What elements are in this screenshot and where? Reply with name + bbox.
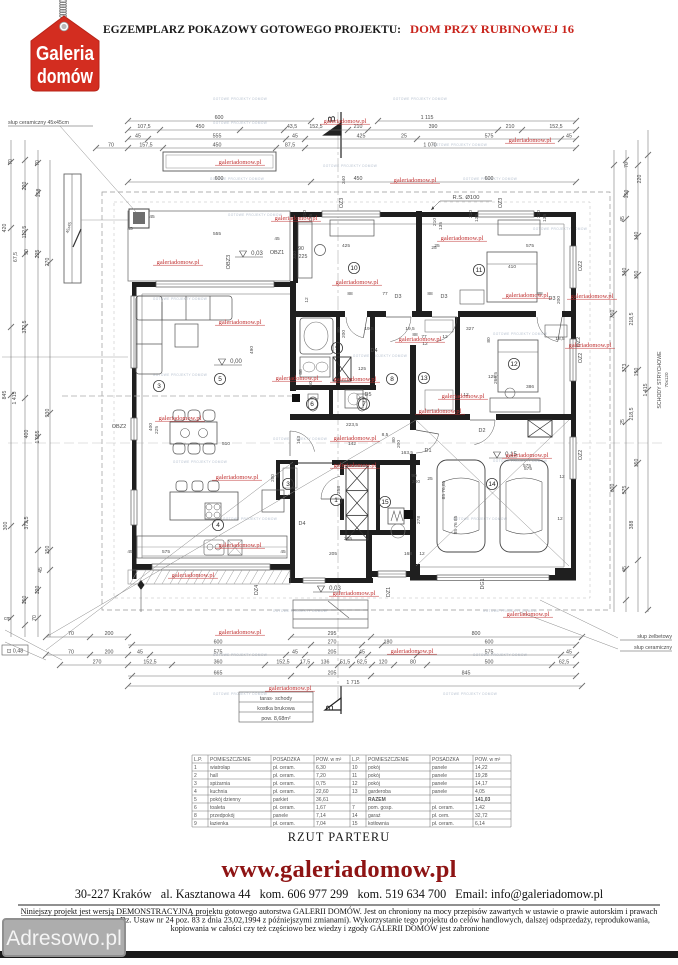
wall room12-garderoba [455, 317, 460, 414]
svg-text:pokój: pokój [368, 765, 380, 771]
svg-text:domów: domów [37, 66, 94, 89]
svg-text:13: 13 [420, 375, 428, 382]
svg-text:3: 3 [194, 781, 197, 787]
svg-text:845: 845 [2, 391, 8, 400]
svg-text:panele: panele [432, 773, 447, 779]
svg-text:600: 600 [214, 640, 223, 646]
svg-text:152,5: 152,5 [276, 660, 289, 666]
svg-text:spiżarnia: spiżarnia [210, 781, 230, 787]
svg-text:D5: D5 [365, 392, 372, 398]
svg-text:90: 90 [24, 249, 30, 255]
svg-text:372,5: 372,5 [24, 516, 30, 529]
door cut corridor room12 [536, 311, 562, 317]
svg-text:6,14: 6,14 [475, 821, 485, 827]
wall vestibule right [366, 533, 372, 583]
wall bath-toilet [336, 317, 340, 385]
svg-text:GOTOWE PROJEKTY DOMOW: GOTOWE PROJEKTY DOMOW [273, 609, 327, 613]
svg-text:555: 555 [213, 231, 221, 237]
door wiatrolap [321, 498, 344, 500]
svg-text:GOTOWE PROJEKTY DOMOW: GOTOWE PROJEKTY DOMOW [173, 460, 227, 464]
svg-text:D3: D3 [395, 294, 402, 300]
door D2 garage [470, 419, 495, 421]
sink [204, 540, 224, 555]
door D3 room12 [558, 317, 562, 342]
svg-text:575: 575 [485, 134, 494, 140]
svg-text:360: 360 [214, 660, 223, 666]
svg-text:270: 270 [45, 258, 51, 267]
svg-text:70: 70 [35, 160, 41, 166]
svg-text:665: 665 [214, 671, 223, 677]
svg-text:12: 12 [510, 361, 518, 368]
level mark 0,00 [219, 359, 226, 365]
svg-text:14,22: 14,22 [475, 765, 488, 771]
window OZ3 room10 [322, 211, 380, 217]
svg-text:223,5: 223,5 [346, 422, 358, 428]
horizontal reference line [8, 442, 662, 444]
svg-text:135: 135 [542, 214, 548, 222]
svg-text:D3: D3 [549, 296, 556, 302]
svg-text:80: 80 [410, 660, 416, 666]
door cut corridor room10 [386, 311, 412, 317]
construction diagonal lines [46, 420, 416, 637]
logo hang hole [60, 22, 69, 31]
svg-text:210: 210 [536, 210, 542, 218]
svg-text:12: 12 [557, 516, 563, 522]
door cut garage-kotlownia [410, 430, 416, 454]
svg-text:12: 12 [419, 551, 425, 557]
room11 bed [487, 252, 537, 302]
svg-text:19,5: 19,5 [364, 326, 374, 332]
svg-text:pom. gosp.: pom. gosp. [368, 805, 393, 811]
door living [289, 431, 291, 456]
svg-text:OZ2: OZ2 [578, 353, 584, 363]
svg-text:600: 600 [485, 176, 494, 182]
svg-text:kopiowania w całości czy też c: kopiowania w całości czy też częściowo b… [171, 923, 490, 933]
svg-text:25: 25 [431, 245, 437, 251]
svg-text:pokój: pokój [368, 781, 380, 787]
svg-text:18,5: 18,5 [555, 336, 565, 342]
svg-text:cm: cm [4, 616, 11, 622]
svg-text:6: 6 [310, 401, 314, 408]
svg-text:85 76 85: 85 76 85 [453, 515, 459, 534]
separator line [18, 904, 660, 906]
svg-text:kotłownia: kotłownia [368, 821, 389, 827]
wall living-bath [290, 281, 296, 391]
washbasin counter [300, 357, 330, 377]
svg-text:19,5: 19,5 [405, 326, 415, 332]
svg-text:120: 120 [379, 660, 388, 666]
svg-text:wiatrołap: wiatrołap [210, 765, 230, 771]
room number 5 [214, 373, 225, 384]
left leader line [2, 356, 128, 358]
svg-text:70: 70 [68, 650, 74, 656]
svg-text:386: 386 [526, 384, 534, 390]
wall step entrance-garage [415, 564, 420, 580]
svg-text:340: 340 [622, 268, 628, 277]
svg-text:Adresowo.pl: Adresowo.pl [6, 927, 122, 950]
svg-text:800: 800 [472, 631, 481, 637]
svg-text:200: 200 [105, 631, 114, 637]
room number 3 [282, 478, 293, 489]
wall garage left [410, 420, 416, 575]
coffee table [175, 324, 198, 347]
svg-text:Galeria: Galeria [36, 42, 94, 65]
svg-text:150: 150 [624, 190, 630, 199]
top dimension row 1 [128, 120, 311, 122]
door cut bath [345, 311, 367, 317]
svg-text:OZ3: OZ3 [498, 198, 504, 208]
wall bath-przedpokoj [370, 311, 375, 390]
svg-text:575: 575 [622, 486, 628, 495]
svg-text:6,30: 6,30 [316, 765, 326, 771]
svg-text:88: 88 [347, 291, 353, 297]
wall spizarnia bottom [276, 495, 295, 499]
svg-text:pł. cem.: pł. cem. [432, 813, 450, 819]
svg-text:2: 2 [194, 773, 197, 779]
svg-text:845: 845 [462, 671, 471, 677]
window left living [131, 296, 137, 368]
svg-text:258: 258 [336, 486, 342, 494]
svg-text:POMIESZCZENIE: POMIESZCZENIE [210, 757, 252, 763]
top dimension row 3 [128, 138, 576, 140]
svg-text:7,14: 7,14 [316, 813, 326, 819]
svg-text:7: 7 [352, 805, 355, 811]
svg-text:225: 225 [35, 250, 41, 259]
svg-text:GOTOWE PROJEKTY DOMOW: GOTOWE PROJEKTY DOMOW [213, 97, 267, 101]
svg-text:158: 158 [36, 189, 42, 198]
svg-text:425: 425 [357, 134, 366, 140]
svg-text:490: 490 [249, 346, 255, 354]
door D4 bath [363, 317, 367, 338]
svg-text:www.galeriadomow.pl: www.galeriadomow.pl [221, 856, 456, 883]
svg-text:pł. ceram.: pł. ceram. [273, 765, 295, 771]
svg-text:135: 135 [438, 222, 444, 230]
garage door DG1 [437, 575, 549, 581]
svg-text:45: 45 [359, 650, 365, 656]
svg-text:1 070: 1 070 [423, 143, 436, 149]
fridge [262, 490, 284, 512]
svg-text:168: 168 [404, 551, 412, 557]
wall garage bottom [410, 575, 576, 581]
svg-text:GOTOWE PROJEKTY DOMOW: GOTOWE PROJEKTY DOMOW [393, 97, 447, 101]
svg-text:88: 88 [427, 291, 433, 297]
svg-text:8,5: 8,5 [382, 432, 389, 438]
svg-text:575: 575 [162, 549, 170, 555]
svg-text:panele: panele [432, 789, 447, 795]
svg-text:22,60: 22,60 [316, 789, 329, 795]
svg-text:600: 600 [215, 176, 224, 182]
svg-text:575: 575 [523, 463, 531, 469]
svg-text:DZ1: DZ1 [386, 587, 392, 597]
dining chairs [173, 410, 215, 454]
svg-text:45: 45 [127, 226, 133, 232]
svg-text:107,5: 107,5 [137, 124, 150, 130]
svg-text:1: 1 [334, 497, 338, 504]
svg-text:150: 150 [634, 459, 640, 468]
svg-text:5: 5 [218, 376, 222, 383]
level mark 0,03 [318, 586, 325, 592]
svg-text:45: 45 [292, 134, 298, 140]
svg-text:toaleta: toaleta [210, 805, 225, 811]
svg-text:70x120: 70x120 [664, 372, 669, 388]
svg-text:pł. ceram.: pł. ceram. [273, 789, 295, 795]
sofa L-shaped [136, 296, 232, 374]
svg-text:80: 80 [275, 472, 280, 478]
svg-text:120: 120 [35, 586, 41, 595]
svg-text:1 415: 1 415 [12, 391, 18, 404]
window bottom kitchen [152, 564, 270, 570]
bathtub [300, 318, 333, 354]
inner wall faces [142, 224, 564, 567]
svg-text:6: 6 [194, 805, 197, 811]
wc toaleta [308, 397, 318, 411]
svg-text:panele: panele [432, 765, 447, 771]
wall top exterior [290, 212, 576, 217]
svg-text:POMIESZCZENIE: POMIESZCZENIE [368, 757, 410, 763]
svg-text:266,5: 266,5 [493, 372, 499, 384]
svg-text:200: 200 [396, 440, 402, 448]
window OZ3 room11 [478, 211, 534, 217]
svg-text:GOTOWE PROJEKTY DOMOW: GOTOWE PROJEKTY DOMOW [453, 517, 507, 521]
svg-text:575: 575 [526, 243, 534, 249]
svg-text:62,5: 62,5 [357, 660, 367, 666]
svg-text:390: 390 [429, 124, 438, 130]
svg-text:150: 150 [45, 546, 51, 555]
svg-text:POW. w m²: POW. w m² [475, 757, 501, 763]
svg-text:DZ4: DZ4 [254, 585, 260, 595]
svg-text:pł. ceram.: pł. ceram. [432, 821, 454, 827]
taras schody table [239, 692, 313, 722]
svg-text:słup ceramiczny 45x45cm: słup ceramiczny 45x45cm [8, 120, 70, 126]
svg-text:7,20: 7,20 [316, 773, 326, 779]
svg-text:225: 225 [154, 426, 160, 434]
svg-text:372,5: 372,5 [22, 320, 28, 333]
svg-text:327: 327 [466, 326, 474, 332]
svg-text:10: 10 [352, 765, 358, 771]
svg-text:14: 14 [488, 481, 496, 488]
svg-text:pokój: pokój [368, 773, 380, 779]
canopy rectangle above plan [163, 152, 276, 171]
svg-text:210: 210 [432, 218, 438, 226]
svg-text:388: 388 [629, 521, 635, 530]
svg-text:pł. ceram.: pł. ceram. [432, 805, 454, 811]
svg-text:300: 300 [3, 522, 9, 531]
wall kotlownia right [376, 460, 380, 533]
svg-text:12: 12 [304, 297, 310, 303]
washer pom gosp [345, 390, 363, 408]
door cut wiatrolap-hall [340, 475, 344, 499]
svg-text:180: 180 [384, 640, 393, 646]
svg-text:425: 425 [342, 243, 350, 249]
svg-text:400: 400 [148, 423, 154, 431]
svg-text:17,5: 17,5 [300, 660, 310, 666]
svg-text:GOTOWE PROJEKTY DOMOW: GOTOWE PROJEKTY DOMOW [493, 332, 547, 336]
svg-text:RAZEM: RAZEM [368, 797, 386, 803]
svg-text:1 415: 1 415 [643, 383, 649, 396]
level mark 0,03 [240, 251, 247, 257]
svg-text:70: 70 [624, 162, 630, 168]
room number 13 [418, 372, 429, 383]
svg-text:garaż: garaż [368, 813, 381, 819]
svg-text:32,72: 32,72 [475, 813, 488, 819]
wall rooms 10-11 [416, 211, 422, 317]
svg-text:750: 750 [610, 310, 616, 319]
svg-text:70: 70 [68, 631, 74, 637]
svg-text:1 715: 1 715 [346, 680, 359, 686]
svg-text:OBZ2: OBZ2 [112, 424, 127, 430]
svg-text:205: 205 [344, 536, 352, 542]
door D3 room11 [432, 316, 457, 318]
junction blocks [292, 394, 300, 402]
svg-text:45: 45 [149, 214, 155, 220]
svg-text:9: 9 [335, 345, 339, 352]
svg-text:450: 450 [196, 124, 205, 130]
left dimension columns [10, 140, 12, 637]
svg-text:200: 200 [556, 296, 562, 304]
svg-text:GOTOWE PROJEKTY DOMOW: GOTOWE PROJEKTY DOMOW [153, 297, 207, 301]
niche washbasin [315, 245, 326, 256]
svg-text:pokój dzienny: pokój dzienny [210, 797, 241, 803]
svg-text:OZ2: OZ2 [578, 450, 584, 460]
svg-text:45: 45 [137, 650, 143, 656]
svg-text:7,04: 7,04 [316, 821, 326, 827]
svg-text:GOTOWE PROJEKTY DOMOW: GOTOWE PROJEKTY DOMOW [533, 227, 587, 231]
room table [192, 755, 511, 827]
room12 desk [490, 398, 540, 412]
0,48 box [2, 645, 28, 655]
svg-text:3: 3 [286, 481, 290, 488]
wall przedpokoj-garderoba [410, 345, 416, 420]
room number 1 [330, 494, 341, 505]
svg-text:GOTOWE PROJEKTY DOMOW: GOTOWE PROJEKTY DOMOW [213, 121, 267, 125]
door cut hall-garage D2 [470, 414, 496, 420]
bottom black bar [0, 951, 678, 958]
section mark B top [324, 112, 341, 158]
svg-text:D4: D4 [299, 521, 306, 527]
svg-text:25: 25 [620, 419, 626, 425]
window OZ2 room11 [570, 246, 576, 288]
svg-text:30-227 Kraków al. Kasztanowa: 30-227 Kraków al. Kasztanowa 44 kom. 606… [75, 887, 604, 901]
room10 wardrobe [298, 222, 312, 278]
svg-text:L.P.: L.P. [194, 757, 202, 763]
svg-text:12: 12 [442, 334, 448, 340]
svg-text:11: 11 [352, 773, 357, 779]
svg-text:DOM PRZY RUBINOWEJ 16: DOM PRZY RUBINOWEJ 16 [410, 22, 574, 36]
section line B [337, 112, 339, 700]
svg-text:295: 295 [328, 631, 337, 637]
room number 11 [473, 264, 484, 275]
svg-text:panele: panele [273, 813, 288, 819]
svg-text:pł. ceram.: pł. ceram. [273, 821, 295, 827]
svg-text:45: 45 [38, 567, 44, 573]
svg-text:77: 77 [382, 291, 388, 297]
room number 14 [486, 478, 497, 489]
garderoba shelves [425, 320, 453, 332]
svg-text:7: 7 [362, 401, 366, 408]
spizarnia shelves [283, 468, 297, 488]
svg-text:150: 150 [634, 368, 640, 377]
svg-text:10: 10 [350, 265, 358, 272]
wall vestibule bottom [289, 578, 373, 583]
svg-text:70: 70 [108, 143, 114, 149]
car 2 in garage [500, 460, 548, 552]
svg-text:OBZ3: OBZ3 [226, 255, 232, 270]
survey marker [138, 580, 145, 590]
top dimension row 4 [96, 147, 576, 149]
room number 9 [331, 342, 342, 353]
svg-text:270: 270 [93, 660, 102, 666]
svg-text:OZ3: OZ3 [339, 198, 345, 208]
svg-text:157,5: 157,5 [139, 143, 152, 149]
svg-text:8: 8 [194, 813, 197, 819]
kitchen counter bottom [137, 536, 287, 558]
dining table [170, 422, 217, 444]
svg-text:220: 220 [637, 175, 643, 184]
door DZ1 kotlownia [378, 571, 406, 577]
svg-text:taras· schody: taras· schody [260, 696, 293, 702]
garage diagonals [416, 420, 569, 566]
svg-text:14,17: 14,17 [475, 781, 488, 787]
svg-text:87,5: 87,5 [285, 143, 295, 149]
svg-text:D3: D3 [441, 294, 448, 300]
svg-text:13: 13 [352, 789, 358, 795]
svg-text:150: 150 [22, 596, 28, 605]
svg-text:340: 340 [341, 176, 347, 184]
stove 4 burners [205, 503, 221, 519]
svg-text:11: 11 [476, 267, 483, 274]
svg-text:340: 340 [292, 251, 298, 259]
svg-text:112,5: 112,5 [22, 226, 28, 239]
svg-text:152,5: 152,5 [549, 124, 562, 130]
inner dashed outline [114, 202, 590, 598]
wall entrance top [290, 460, 420, 465]
svg-text:70: 70 [32, 615, 38, 621]
svg-text:555: 555 [213, 134, 222, 140]
svg-text:152,5: 152,5 [309, 124, 322, 130]
svg-text:SCHODY STRYCHOWE: SCHODY STRYCHOWE [657, 351, 663, 409]
right dimension columns [613, 150, 615, 612]
window left kitchen [131, 490, 137, 525]
svg-text:1,42: 1,42 [475, 805, 485, 811]
svg-text:kostka brukowa: kostka brukowa [257, 706, 294, 712]
wall wiatrolap left [290, 460, 295, 583]
svg-text:85 76,85: 85 76,85 [441, 480, 447, 499]
svg-text:9: 9 [194, 821, 197, 827]
floor drain circle [391, 524, 405, 538]
svg-text:450: 450 [354, 176, 363, 182]
svg-text:43,5: 43,5 [287, 124, 297, 130]
svg-text:D1: D1 [425, 448, 432, 454]
svg-text:575: 575 [485, 650, 494, 656]
door cut entrance DZ1 [298, 460, 332, 466]
svg-text:373: 373 [622, 364, 628, 373]
svg-text:25: 25 [427, 476, 433, 482]
svg-text:62,5: 62,5 [559, 660, 569, 666]
room number 6 [306, 398, 317, 409]
svg-text:DG1: DG1 [480, 578, 486, 589]
svg-text:GOTOWE PROJEKTY DOMOW: GOTOWE PROJEKTY DOMOW [433, 143, 487, 147]
window OZ2 room12 [570, 339, 576, 381]
svg-text:500: 500 [485, 660, 494, 666]
svg-text:0,75: 0,75 [316, 781, 326, 787]
svg-text:POSADZKA: POSADZKA [273, 757, 301, 763]
wall toilet6 right [329, 389, 333, 415]
car 1 in garage [437, 460, 485, 552]
room10 bed [297, 149, 299, 151]
bottom terrace hatched strip [128, 570, 290, 584]
door cut corridor room11 [432, 311, 458, 317]
wall spizarnia top [276, 460, 295, 464]
